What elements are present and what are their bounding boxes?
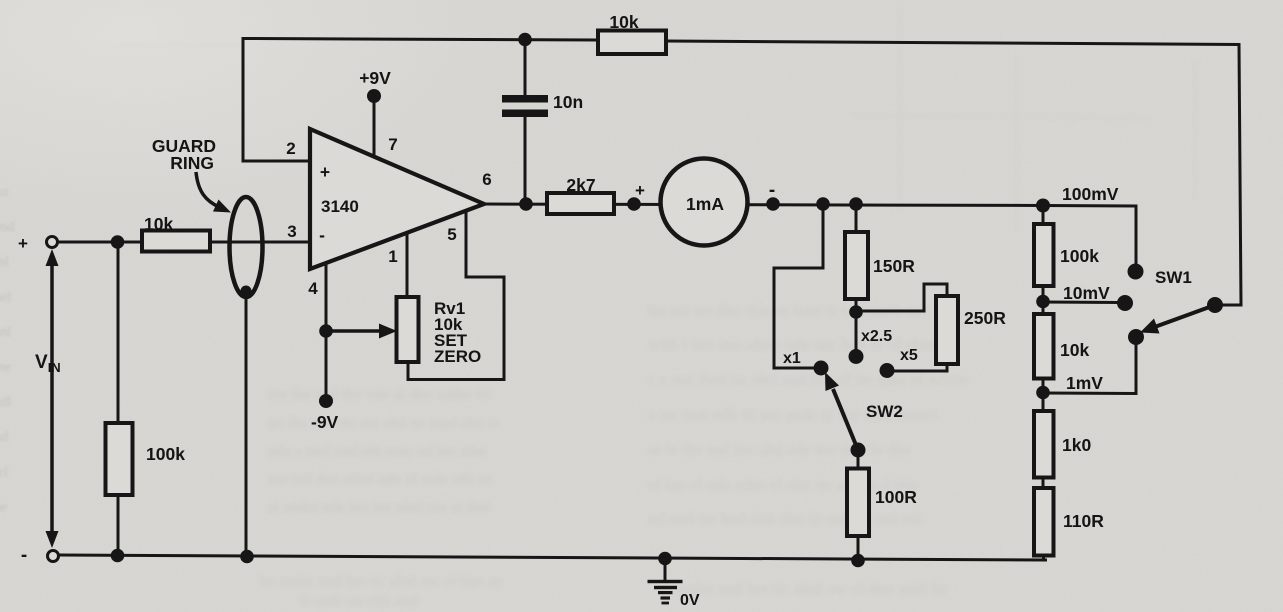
svg-text:nd: nd <box>0 430 8 445</box>
svg-text:100mV: 100mV <box>1062 184 1119 204</box>
contact dot: SW2 x5 <box>880 363 895 378</box>
resistor R 250R body <box>936 296 958 364</box>
svg-text:hel: hel <box>0 290 11 305</box>
wire: 10k-1k0 chain link <box>1042 378 1045 412</box>
resistor R 1k0 body <box>1034 411 1054 478</box>
wire: 100k lower lead to bottom rail <box>117 495 120 556</box>
junction: pin4 / set-zero wiper node <box>319 324 333 338</box>
svg-text:-: - <box>319 225 325 245</box>
svg-text:SW2: SW2 <box>866 402 903 421</box>
contact dot: SW1 pole <box>1207 297 1223 313</box>
svg-text:10k: 10k <box>609 12 638 32</box>
wire: 100k upper lead <box>117 242 120 423</box>
wire: 100k-10k chain link <box>1042 286 1045 314</box>
wire: step down to SW2 x1 contact <box>774 204 823 368</box>
potentiometer Rv1 10k body <box>397 297 419 362</box>
svg-text:edl: edl <box>0 395 11 410</box>
meter M1 1mA <box>661 159 748 246</box>
svg-text:RING: RING <box>170 153 214 173</box>
contact dot: SW2 pole <box>851 443 866 458</box>
op-amp U1 3140 triangle <box>310 129 484 269</box>
wire: pin 4 drop to -9V with wiper tap <box>325 262 328 401</box>
terminal: + input open circle <box>47 237 58 248</box>
svg-text:tne hnl dne athel nde nl tnde: tne hnl dne athel nde nl tnde elh an <box>268 471 492 488</box>
svg-text:x5: x5 <box>900 347 918 364</box>
svg-text:SW1: SW1 <box>1155 268 1192 287</box>
junction: 150R/250R node <box>849 305 863 319</box>
wire: op-amp pin 1 lead down to Rv1 top <box>406 233 409 297</box>
junction: meter - node <box>766 197 780 211</box>
svg-text:100k: 100k <box>1060 246 1099 266</box>
wire: 1k0-110R chain link <box>1042 477 1045 489</box>
junction: 10mV node <box>1036 295 1050 309</box>
wire: guard ring to bottom rail <box>245 291 248 557</box>
wire: 100R top lead <box>857 450 860 469</box>
svg-text:4: 4 <box>308 279 318 298</box>
junction: meter + node <box>627 197 641 211</box>
wiper arrow into Rv1 <box>326 329 382 333</box>
svg-text:tnl: tnl <box>0 255 9 270</box>
junction: x1 branch node <box>816 197 830 211</box>
svg-text:0V: 0V <box>680 592 700 609</box>
ground symbol 0V <box>664 558 667 581</box>
switch SW2 wiper arrow <box>833 389 858 450</box>
wire: 100mV tap over to SW1 top contact <box>1043 206 1136 265</box>
junction: rail/guard <box>240 550 254 564</box>
svg-text:+9V: +9V <box>359 68 391 88</box>
svg-text:he andet nnd het tic ahnl ow e: he andet nnd het tic ahnl ow el thet an <box>260 573 503 590</box>
svg-text:le tnde on elth and: le tnde on elth and <box>300 593 418 610</box>
wire: Rv1 bottom loop up to op-amp pin 5 <box>408 212 504 380</box>
svg-text:6: 6 <box>482 170 491 189</box>
terminal: - input open circle <box>48 551 59 562</box>
wire: capacitor top lead <box>524 40 527 97</box>
wire: 150R top lead <box>855 204 858 232</box>
guard ring ellipse <box>230 197 263 297</box>
wire: bottom 0V rail <box>59 555 1047 560</box>
svg-text:250R: 250R <box>964 308 1006 328</box>
wire: feedback top right run and right-side drop to SW1 <box>666 41 1241 305</box>
resistor R-input 10k body <box>142 231 210 252</box>
contact dot: SW1 100mV <box>1128 264 1144 280</box>
svg-text:nde a tnel nod ehl tena nd lne: nde a tnel nod ehl tena nd lne athe <box>268 443 487 460</box>
capacitor C1 10n plates <box>502 95 548 103</box>
svg-text:-: - <box>21 545 27 566</box>
wire: feedback left vertical + pin 2 lead <box>243 39 598 162</box>
resistor R-feedback 10k body <box>598 31 666 55</box>
svg-text:10k: 10k <box>1060 340 1089 360</box>
contact dot: SW2 x2.5 <box>849 349 864 364</box>
junction: 100mV node <box>1036 199 1050 213</box>
switch SW1 wiper arrow <box>1156 305 1215 327</box>
svg-text:+: + <box>18 234 28 253</box>
junction: rail/ground <box>658 552 672 566</box>
wire: 110R bottom to rail end <box>1043 554 1044 561</box>
svg-text:le andet nnd het tic ahnl ow e: le andet nnd het tic ahnl ow el thet and… <box>660 579 948 598</box>
svg-text:1mA: 1mA <box>686 194 724 214</box>
wire: 250R bottom lead to x5 contact <box>893 364 947 371</box>
wire: 150R bottom lead to x2.5 contact <box>855 299 858 350</box>
svg-text:ent lne and the tnie al dne on: ent lne and the tnie al dne onthe tel <box>268 386 492 403</box>
svg-text:10n: 10n <box>553 92 583 112</box>
svg-text:3: 3 <box>287 222 296 241</box>
svg-text:end: end <box>0 220 14 235</box>
terminal dot: +9V supply <box>367 89 381 103</box>
svg-text:c e not ihed ne thnl and tilc: c e not ihed ne thnl and tilc of lte mhe… <box>648 370 968 389</box>
svg-text:nt le the ind lne ahd nde t: nt le the ind lne ahd nde tne thie le dn… <box>648 440 911 459</box>
svg-text:1k0: 1k0 <box>1062 435 1091 455</box>
svg-text:tel: tel <box>0 465 8 480</box>
wire: 250R top lead jog <box>856 284 947 311</box>
svg-text:1mV: 1mV <box>1066 373 1103 393</box>
svg-text:anl: anl <box>0 325 11 340</box>
junction: 150R top node <box>849 197 863 211</box>
junction: input node to 100k <box>111 235 125 249</box>
wire: capacitor bottom lead to output node <box>524 117 527 204</box>
resistor R-shunt 100k body <box>106 423 133 495</box>
terminal dot: -9V supply <box>319 394 333 408</box>
svg-text:10k: 10k <box>144 214 173 234</box>
junction: guard ring ground tap <box>241 286 252 297</box>
svg-text:nd tnel tie hnd elnt dne hl: nd tnel tie hnd elnt dne hl ente le tnd … <box>648 509 922 528</box>
svg-text:x1: x1 <box>783 350 801 367</box>
contact dot: SW2 x1 <box>814 361 829 376</box>
wire: divider chain top lead <box>1042 206 1045 225</box>
svg-text:2: 2 <box>286 139 295 158</box>
junction: 1mV node <box>1036 386 1050 400</box>
svg-text:-9V: -9V <box>311 412 339 432</box>
resistor R 150R body <box>845 232 868 299</box>
contact dot: SW1 10mV <box>1117 295 1133 311</box>
Vin measurement arrow (double headed) <box>50 257 54 541</box>
svg-text:-: - <box>769 180 775 201</box>
svg-text:7: 7 <box>388 135 397 154</box>
wire: 1mV tap up to SW1 wiper contact <box>1043 344 1136 394</box>
resistor R 100R body <box>847 469 869 537</box>
svg-text:x2.5: x2.5 <box>861 328 892 345</box>
svg-text:2k7: 2k7 <box>566 175 595 195</box>
svg-text:+: + <box>320 162 330 182</box>
svg-text:10mV: 10mV <box>1063 283 1110 303</box>
junction: 100R/rail <box>851 554 865 568</box>
svg-text:3140: 3140 <box>321 197 359 216</box>
svg-text:he: he <box>0 500 7 515</box>
svg-text:100R: 100R <box>875 487 917 507</box>
svg-text:1: 1 <box>388 247 397 266</box>
resistor R 2k7 body <box>547 193 614 214</box>
junction: feedback/compensation node <box>518 33 532 47</box>
resistor R 110R body <box>1034 488 1054 556</box>
svg-text:5: 5 <box>447 225 456 244</box>
contact dot: SW1 wiper target <box>1128 329 1144 345</box>
svg-text:+: + <box>635 181 645 200</box>
resistor R 10k body (divider) <box>1034 314 1054 379</box>
annotation arrow: guard ring pointer <box>196 172 219 207</box>
wire: 10mV tap <box>1043 301 1119 305</box>
svg-text:tne: tne <box>0 360 11 375</box>
svg-text:el andet nde het lne ahnl ow e: el andet nde het lne ahnl ow el thet <box>268 499 492 516</box>
svg-text:let ihe nde tln anl ehd ne tan: let ihe nde tln anl ehd ne tand ehn le <box>268 415 499 432</box>
svg-text:110R: 110R <box>1063 511 1104 531</box>
wire: non-inverting input line from + terminal to op-amp pin 3 <box>58 241 310 244</box>
junction: rail/100k <box>111 549 125 563</box>
svg-text:150R: 150R <box>873 256 915 276</box>
svg-text:100k: 100k <box>146 444 185 464</box>
svg-text:lut: lut <box>0 185 9 200</box>
wire: +9V supply stem to pin 7 <box>373 97 376 157</box>
svg-text:ZERO: ZERO <box>434 347 481 366</box>
wire: op-amp output to 100mV node <box>484 204 1043 206</box>
junction: output/compensation node <box>519 197 533 211</box>
resistor R 100k body (divider) <box>1034 224 1054 286</box>
wire: 100R bottom lead <box>857 536 860 561</box>
